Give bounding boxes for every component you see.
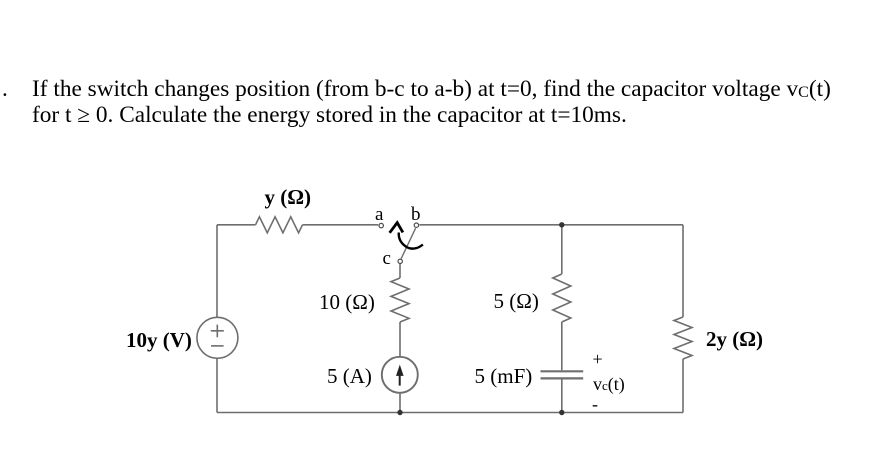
- switch blade from c to b: [401, 228, 415, 258]
- wire right vertical lower: [682, 359, 684, 413]
- label 10y (V): [126, 328, 192, 353]
- plus sign inside voltage source: [211, 325, 224, 338]
- switch motion arrow arc: [399, 233, 423, 249]
- switch motion arrowhead: [390, 223, 403, 233]
- junction node bottom of current source branch: [397, 410, 402, 415]
- switch label b: [411, 204, 421, 226]
- capacitor minus polarity: [592, 394, 598, 415]
- resistor y (Omega): [256, 217, 303, 233]
- switch label a: [375, 204, 383, 226]
- minus sign inside voltage source: [211, 345, 224, 347]
- wire left vertical lower: [216, 358, 218, 412]
- wire from resistor to switch terminal a: [303, 224, 379, 226]
- switch terminal b: [414, 223, 418, 227]
- current source 5 (A): [382, 357, 418, 393]
- label y (Omega): [265, 185, 312, 210]
- label 5 (Omega): [494, 289, 539, 314]
- capacitor voltage label vc(t): [593, 374, 625, 395]
- junction node bottom of capacitor branch: [559, 410, 564, 415]
- wire right vertical upper: [682, 225, 684, 317]
- capacitor 5 (mF) plates: [541, 371, 584, 378]
- resistor 10 (Omega): [391, 278, 409, 322]
- problem statement line 2: [32, 102, 627, 129]
- label 10 (Omega): [319, 290, 375, 315]
- label 5 (A): [327, 364, 372, 389]
- wire current source to bottom: [399, 393, 401, 413]
- switch terminal c: [398, 259, 402, 263]
- current source arrow: [396, 365, 404, 386]
- voltage source 10y (V): [197, 317, 238, 358]
- wire resistor 10 to current source: [399, 322, 401, 357]
- wire switch c to resistor 10: [399, 264, 401, 278]
- capacitor plus polarity: [593, 349, 603, 370]
- label 2y (Omega): [706, 327, 763, 352]
- resistor 5 (Omega): [553, 274, 571, 322]
- wire capacitor to bottom: [561, 380, 563, 413]
- resistor 2y (Omega): [674, 317, 692, 359]
- wire cap branch upper: [561, 225, 563, 274]
- wire top-left horizontal: [217, 224, 256, 226]
- switch terminal a: [379, 223, 383, 227]
- junction node top of capacitor branch: [559, 222, 564, 227]
- switch label c: [383, 248, 391, 270]
- label 5 (mF): [475, 364, 533, 389]
- wire left vertical upper: [216, 225, 218, 317]
- problem statement line 1: [2, 76, 8, 103]
- wire from switch terminal b to top-right corner: [419, 224, 683, 226]
- wire bottom horizontal: [217, 412, 683, 414]
- wire resistor 5 to capacitor: [561, 322, 563, 370]
